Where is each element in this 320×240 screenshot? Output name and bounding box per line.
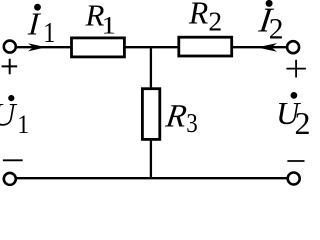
svg-text:1: 1 [43, 16, 55, 48]
arrow I1 [28, 43, 46, 51]
arrow I2 [257, 43, 277, 52]
svg-text:2: 2 [208, 6, 222, 37]
terminal top-left [4, 41, 16, 53]
terminal top-right [287, 41, 299, 53]
polarity minus left [3, 159, 23, 161]
polarity plus left [2, 59, 18, 75]
resistor R2 [179, 37, 232, 56]
svg-text:1: 1 [101, 11, 116, 39]
polarity minus right [287, 160, 304, 162]
svg-text:2: 2 [269, 14, 284, 46]
svg-text:1: 1 [17, 111, 29, 139]
resistor R1 [72, 38, 125, 57]
svg-text:R: R [188, 0, 208, 31]
svg-text:2: 2 [295, 105, 311, 141]
resistor R3 [142, 89, 159, 140]
svg-text:3: 3 [186, 109, 197, 138]
terminal bottom-right [288, 173, 300, 185]
svg-text:U: U [0, 97, 18, 133]
polarity plus right [286, 60, 306, 78]
wire top horizontal [16, 46, 287, 48]
terminal bottom-left [4, 173, 16, 185]
wire middle vertical [150, 47, 152, 178]
wire bottom horizontal [16, 177, 288, 179]
